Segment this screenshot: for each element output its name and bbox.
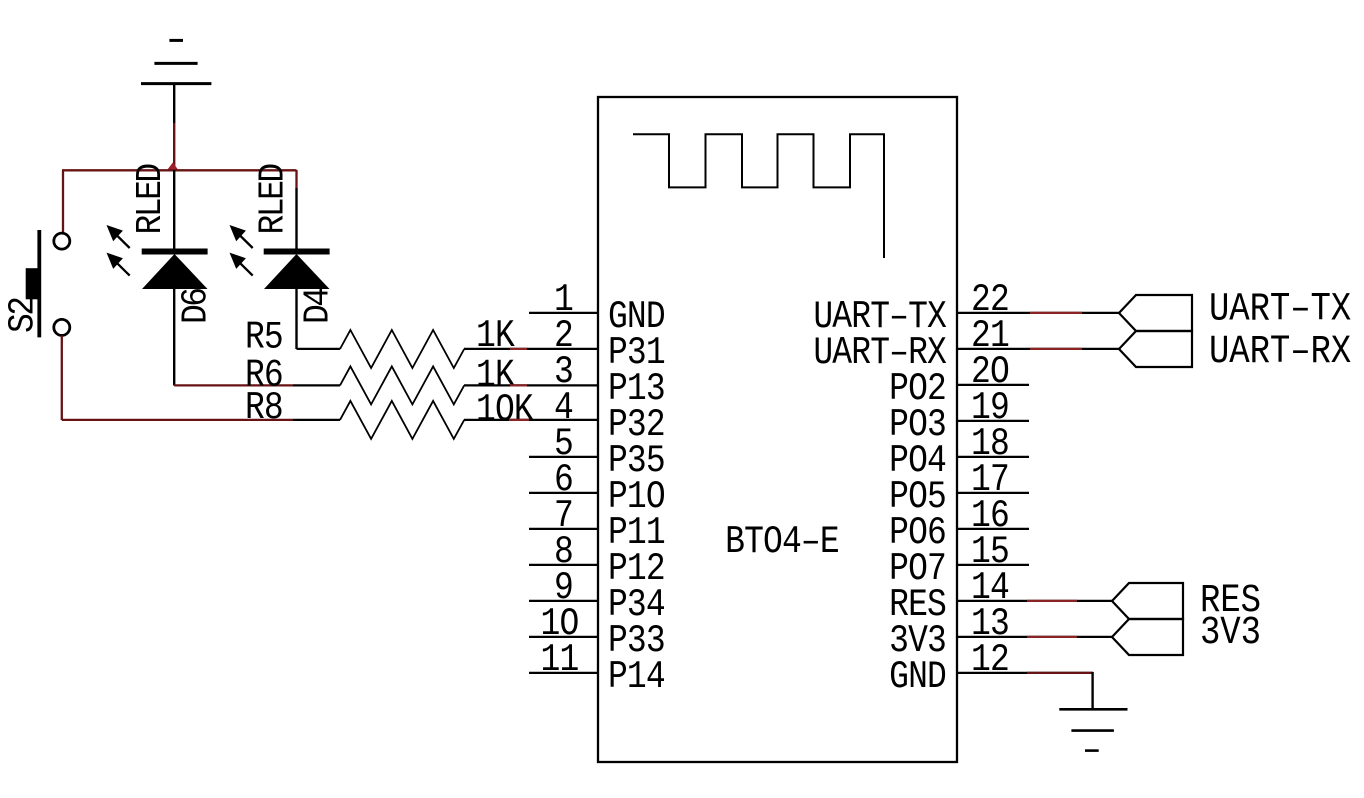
- pin 12 (GND): [889, 638, 1009, 699]
- svg-text:BTO4–E: BTO4–E: [725, 520, 839, 564]
- pin 18 (P04): [889, 422, 1029, 483]
- port UART-TX: [1119, 295, 1192, 331]
- svg-text:P14: P14: [608, 655, 665, 699]
- svg-text:1OK: 1OK: [476, 388, 534, 432]
- wire net 3V3 (pin 13): [957, 636, 1112, 638]
- svg-text:1K: 1K: [476, 314, 515, 358]
- pin 19 (P03): [889, 386, 1029, 447]
- wire R8 to pin4: [464, 419, 598, 421]
- LED D6: [107, 225, 208, 289]
- power rail symbol VCC (inverted ground bars): [141, 40, 211, 123]
- pin 6 (P10): [529, 458, 665, 519]
- pin 16 (P06): [889, 494, 1029, 555]
- wire net S2 to R8: [62, 419, 293, 421]
- pin 4 (P32): [554, 386, 665, 447]
- pin 5 (P35): [529, 422, 665, 483]
- wire R6 to pin3: [464, 384, 598, 386]
- ground symbol: [1059, 709, 1127, 750]
- svg-text:UART–RX: UART–RX: [1209, 330, 1351, 375]
- pin 11 (P14): [529, 638, 665, 699]
- svg-text:12: 12: [971, 638, 1009, 682]
- label D4: [298, 288, 339, 324]
- wire net UART-TX (pin 22): [957, 312, 1119, 314]
- pin 7 (P11): [529, 494, 665, 555]
- wire to S2 top: [62, 170, 64, 233]
- label RLED (D4): [253, 164, 294, 235]
- resistor R6: [293, 366, 464, 404]
- pin 13 (3V3): [889, 602, 1009, 663]
- pin 3 (P13): [554, 350, 665, 411]
- pin 10 (P33): [529, 602, 665, 663]
- pin 9 (P34): [529, 566, 665, 627]
- pin 17 (P05): [889, 458, 1029, 519]
- pin 2 (P31): [554, 314, 665, 375]
- label UART-RX: [1209, 330, 1351, 375]
- wire net VCC horizontal: [62, 169, 297, 171]
- port UART-RX: [1119, 331, 1192, 367]
- pin 8 (P12): [529, 530, 665, 591]
- svg-text:D4: D4: [298, 288, 339, 324]
- IC U1 BT04-E body: [598, 97, 957, 762]
- label R5: [245, 315, 283, 359]
- svg-text:11: 11: [541, 638, 579, 682]
- wire net D6 to R6 (red): [174, 384, 293, 386]
- label R6: [245, 353, 283, 397]
- LED D4: [230, 225, 330, 289]
- port 3V3: [1112, 619, 1183, 655]
- label 1K (R6): [476, 353, 515, 397]
- label S2: [3, 298, 44, 333]
- svg-text:R8: R8: [245, 386, 283, 430]
- svg-text:RLED: RLED: [253, 164, 294, 235]
- label RLED (D6): [131, 164, 172, 235]
- svg-text:UART–TX: UART–TX: [1209, 287, 1351, 332]
- svg-text:3V3: 3V3: [1200, 611, 1261, 656]
- resistor R5: [340, 330, 464, 368]
- wire R5 to pin2: [464, 348, 598, 350]
- wire net GND (pin 12): [957, 672, 1093, 709]
- label 10K (R8): [476, 388, 534, 432]
- svg-text:RLED: RLED: [131, 164, 172, 235]
- label RES: [1200, 579, 1261, 624]
- pin 21 (UART–RX): [813, 314, 1009, 375]
- pin 20 (P02): [889, 350, 1029, 411]
- node junction dot: [166, 163, 180, 172]
- wire D4 anode to R5: [297, 289, 341, 349]
- wire VCC to D4 cathode: [295, 170, 297, 249]
- wire D6 anode drop: [173, 289, 175, 386]
- wire VCC stem (red): [173, 123, 175, 169]
- svg-text:GND: GND: [889, 655, 946, 699]
- antenna symbol: [633, 134, 884, 258]
- wire net RES (pin 14): [957, 600, 1112, 602]
- label D6: [176, 289, 217, 324]
- svg-text:S2: S2: [3, 298, 44, 333]
- switch S2: [26, 230, 70, 337]
- label 1K (R5): [476, 314, 515, 358]
- pin 14 (RES): [889, 566, 1009, 627]
- wire S2 bottom drop: [61, 336, 63, 421]
- label R8: [245, 386, 283, 430]
- pin 1 (GND): [529, 278, 665, 339]
- label UART-TX: [1209, 287, 1351, 332]
- wire net UART-RX (pin 21): [957, 348, 1119, 350]
- label BT04-E: [725, 520, 839, 564]
- wire VCC to D6 cathode: [173, 170, 175, 249]
- pin 22 (UART–TX): [813, 278, 1009, 339]
- label 3V3: [1200, 611, 1261, 656]
- pin 15 (P07): [889, 530, 1029, 591]
- svg-text:D6: D6: [176, 289, 217, 324]
- port RES: [1112, 583, 1183, 619]
- resistor R8: [293, 401, 464, 439]
